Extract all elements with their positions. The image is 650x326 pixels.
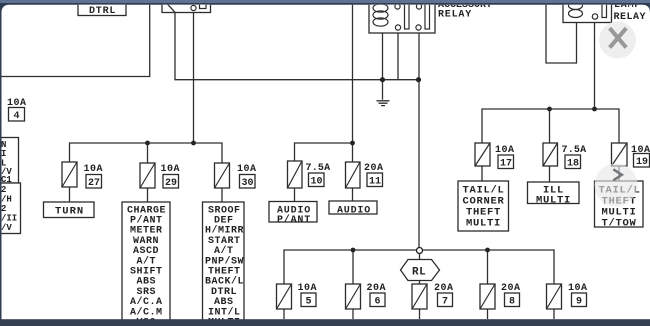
wire relay S1 pin to left fuse bus (193, 11, 195, 144)
wire relay K1 pin down to junction (397, 31, 399, 80)
svg-text:17: 17 (500, 159, 512, 170)
node ground junction (380, 77, 385, 82)
wire fuse29 to CHARGE box (147, 188, 149, 202)
relay K1 accessory relay (369, 0, 435, 33)
next button disc (595, 164, 638, 207)
svg-text:MULTI: MULTI (536, 195, 571, 207)
wire left feed from top to left edge (0, 0, 150, 77)
fuse F7 (412, 283, 454, 309)
svg-text:AUDIO: AUDIO (337, 206, 371, 217)
wire fuse8 drop (487, 250, 489, 284)
svg-text:MULTI: MULTI (466, 218, 501, 230)
fuse F10 (288, 161, 331, 188)
ground (377, 101, 390, 106)
fuse F8 (480, 283, 521, 309)
svg-text:A/T: A/T (214, 245, 234, 257)
svg-text:T/TOW: T/TOW (602, 218, 637, 230)
wire relay K1 pin down to RL node (418, 31, 420, 248)
wire lamp relay feed loop (546, 0, 577, 63)
viewer top slate strip (0, 0, 650, 3)
fuse 4 label (cut at left edge) (7, 98, 27, 122)
fuse F6 (346, 283, 387, 309)
svg-text:18: 18 (567, 159, 579, 170)
svg-text:DTRL: DTRL (89, 6, 116, 17)
fuse F19 (612, 143, 650, 168)
wire fuse11 to AUDIO box (352, 188, 354, 202)
svg-text:9: 9 (576, 297, 582, 308)
svg-text:A/C.A: A/C.A (130, 296, 163, 308)
label ACCESSORY RELAY (438, 0, 492, 21)
wire fuse6 drop (352, 250, 354, 284)
fuse F29 (140, 163, 180, 189)
node right bus feed (592, 107, 597, 112)
svg-text:P/ANT: P/ANT (277, 214, 311, 226)
svg-text:27: 27 (88, 178, 100, 189)
svg-text:6: 6 (375, 297, 381, 308)
wire fuse29 drop (147, 143, 149, 163)
svg-text:TURN: TURN (55, 206, 84, 218)
wire fuse10 to AUDIO P/ANT box (294, 188, 296, 202)
svg-text:/II: /II (1, 214, 17, 224)
fuse F18 (543, 143, 586, 170)
viewer bottom bar (0, 319, 650, 326)
wire bottom fuse tails (284, 309, 554, 319)
wire audio feed from top (352, 0, 354, 162)
svg-text:INT/L: INT/L (208, 306, 241, 318)
coil (373, 4, 388, 12)
wire lamp relay switch pin to right bus (594, 19, 596, 109)
ILL MULTI box (528, 182, 580, 207)
legend box upper (cut at left edge) (0, 138, 19, 186)
svg-text:10A: 10A (161, 164, 181, 175)
svg-text:RELAY: RELAY (438, 10, 472, 21)
wire RL hexagon to fuse7 (419, 281, 421, 285)
wire bottom bus (284, 250, 554, 284)
TAIL/L THEFT MULTI T/TOW box (595, 181, 644, 230)
svg-text:PNP/SW: PNP/SW (205, 255, 244, 267)
wire RL node to hexagon (419, 254, 421, 260)
relay S1 (top left, clipped) (162, 0, 211, 13)
wire right bus (482, 109, 619, 143)
svg-text:I: I (1, 149, 6, 159)
svg-text:/H: /H (1, 195, 12, 205)
node right bus fuse18 (547, 107, 552, 112)
wire fuse17 to box (481, 166, 483, 181)
svg-text:10: 10 (311, 177, 323, 188)
node left bus fuse29 (145, 141, 150, 146)
svg-text:2: 2 (1, 204, 6, 214)
pin circles (395, 4, 400, 9)
wire switch of relay S1 down and right to ground node (175, 12, 419, 79)
node relay pins junction (416, 77, 421, 82)
wire fuse27 to TURN box (69, 187, 71, 202)
TAIL/L CORNER THEFT MULTI box (458, 181, 509, 231)
svg-text:10A: 10A (237, 164, 257, 175)
svg-text:2: 2 (1, 185, 6, 195)
label LAMP RELAY (614, 0, 647, 23)
svg-text:A/C.M: A/C.M (130, 306, 163, 318)
wire fuse30 to SROOF box (221, 188, 223, 202)
svg-text:30: 30 (242, 178, 254, 189)
RL hexagon (401, 260, 440, 281)
fuse F27 (62, 162, 103, 189)
svg-text:P/ANT: P/ANT (130, 215, 163, 227)
DTRL box (78, 2, 126, 18)
node bottom bus fuse8 (485, 248, 490, 253)
SROOF list box (203, 202, 245, 326)
node audio bus feed (350, 141, 355, 146)
fuse F11 (346, 162, 384, 188)
svg-text:19: 19 (636, 157, 648, 168)
AUDIO box (329, 201, 377, 217)
node bottom bus fuse6 (351, 248, 356, 253)
svg-text:/V: /V (1, 223, 12, 233)
wire audio bus (295, 143, 353, 161)
legend box lower (cut at left edge) (0, 183, 21, 234)
fuse F5 (277, 283, 318, 309)
CHARGE list box (122, 202, 170, 326)
wire fuse18 to box (549, 166, 551, 182)
AUDIO P/ANT box (269, 202, 317, 227)
svg-text:4: 4 (14, 111, 20, 122)
svg-text:RL: RL (412, 267, 426, 279)
svg-text:11: 11 (369, 177, 381, 188)
wire fuse19 to box (618, 166, 620, 181)
node RL open circle (417, 248, 423, 254)
close button (599, 22, 636, 59)
fuse F30 (215, 163, 257, 189)
relay K2 lamp relay (563, 0, 612, 23)
bar pins (405, 4, 410, 30)
svg-text:BACK/L: BACK/L (205, 276, 244, 288)
svg-text:10A: 10A (84, 164, 104, 175)
svg-text:7: 7 (442, 297, 448, 308)
node left bus feed (191, 141, 196, 146)
fuse F17 (475, 143, 515, 170)
svg-text:A/T: A/T (137, 255, 157, 267)
svg-text:H/MIRR: H/MIRR (205, 225, 244, 237)
svg-text:8: 8 (509, 297, 515, 308)
wire fuse18 drop (549, 109, 551, 143)
fuse F9 (547, 283, 588, 309)
TURN box (44, 202, 95, 218)
wire relay K1 coil to ground (382, 33, 384, 100)
svg-text:29: 29 (165, 178, 177, 189)
svg-text:RELAY: RELAY (614, 12, 647, 23)
svg-text:5: 5 (306, 297, 312, 308)
wire left fuse bus (70, 143, 223, 163)
